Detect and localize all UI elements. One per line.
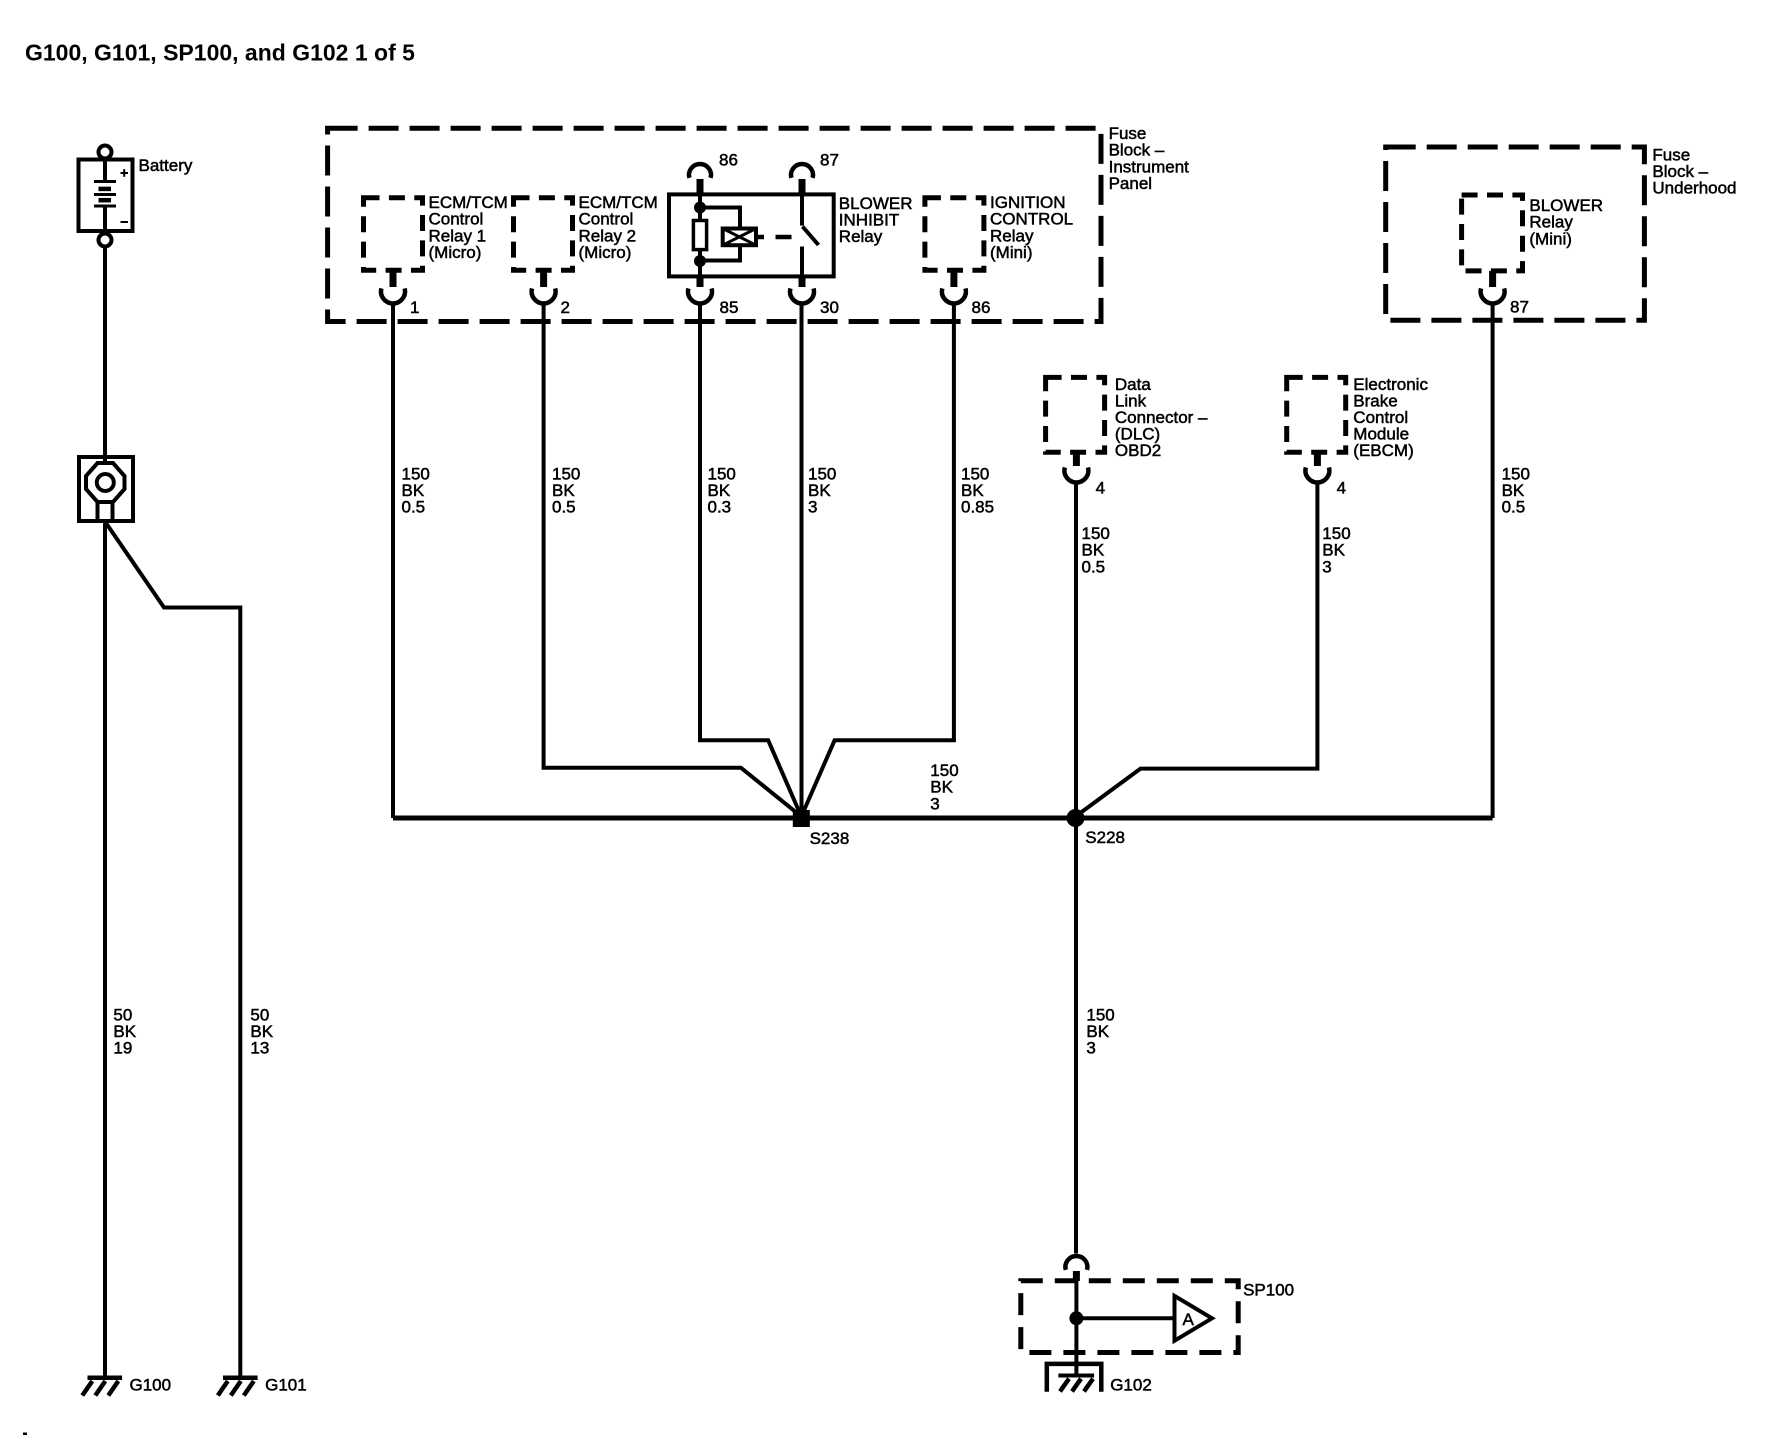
- svg-text:0.5: 0.5: [552, 498, 576, 517]
- svg-text:G101: G101: [265, 1376, 307, 1395]
- battery: [79, 146, 133, 247]
- relay coil resistor: [693, 195, 706, 277]
- wire EBCM to S228: [1076, 483, 1318, 817]
- svg-text:(Mini): (Mini): [990, 243, 1033, 262]
- svg-text:3: 3: [1086, 1039, 1095, 1058]
- fuse block - underhood (dashed): [1386, 147, 1645, 320]
- splice S228: [1069, 811, 1083, 825]
- svg-text:3: 3: [1322, 557, 1331, 576]
- wire ring terminal to G100: [103, 521, 107, 1378]
- pin 30 connector: [790, 276, 814, 303]
- svg-text:0.5: 0.5: [1082, 557, 1106, 576]
- pin 86 connector: [942, 270, 966, 303]
- svg-text:3: 3: [930, 794, 939, 813]
- blower relay (Mini): [1462, 195, 1523, 271]
- svg-text:Underhood: Underhood: [1652, 179, 1736, 198]
- pin 2 connector: [532, 270, 556, 303]
- svg-text:(Micro): (Micro): [579, 243, 632, 262]
- svg-text:(Micro): (Micro): [429, 243, 482, 262]
- ignition control relay (Mini): [925, 198, 984, 270]
- SP100 connector arc: [1065, 1256, 1087, 1281]
- svg-text:0.5: 0.5: [1502, 498, 1526, 517]
- ground G102: [1058, 1376, 1094, 1392]
- wire pin 85 to S238: [700, 304, 801, 817]
- svg-text:A: A: [1183, 1310, 1195, 1329]
- blower inhibit relay box: [669, 194, 834, 276]
- pin 1 connector: [381, 270, 405, 303]
- svg-text:87: 87: [1510, 298, 1529, 317]
- svg-text:(Mini): (Mini): [1529, 229, 1572, 248]
- svg-text:86: 86: [972, 298, 991, 317]
- wire pin 86 to S238: [801, 304, 954, 817]
- wire pin 1 to S238: [391, 304, 395, 819]
- svg-text:OBD2: OBD2: [1115, 441, 1161, 460]
- svg-text:4: 4: [1096, 479, 1105, 498]
- ring terminal (battery ground cable lug): [79, 457, 133, 521]
- svg-text:Relay: Relay: [839, 227, 883, 246]
- svg-text:87: 87: [820, 151, 839, 170]
- svg-text:0.3: 0.3: [708, 498, 732, 517]
- svg-text:4: 4: [1337, 479, 1346, 498]
- wire branch to G101: [106, 523, 240, 1378]
- svg-text:G100: G100: [130, 1376, 172, 1395]
- coil to switch dashed link: [756, 235, 792, 240]
- fuse block - instrument panel (dashed): [328, 128, 1101, 321]
- SP100 internal wire and junction: [1071, 1281, 1174, 1376]
- svg-text:G100, G101, SP100, and G102 1: G100, G101, SP100, and G102 1 of 5: [25, 39, 415, 65]
- electronic brake control module EBCM: [1287, 377, 1346, 452]
- svg-text:86: 86: [719, 151, 738, 170]
- ground G100: [82, 1378, 122, 1396]
- svg-text:30: 30: [820, 298, 839, 317]
- terminal 87 arc: [791, 164, 813, 195]
- ECM/TCM Control Relay 1 (Micro): [364, 198, 423, 270]
- EBCM pin 4 connector: [1305, 452, 1329, 482]
- pin 87 connector: [1481, 271, 1505, 304]
- DLC pin 4 connector: [1064, 452, 1088, 482]
- svg-text:85: 85: [720, 298, 739, 317]
- svg-text:0.5: 0.5: [402, 498, 426, 517]
- ground bus wire S238 to S228 to blower relay: [393, 816, 1493, 821]
- svg-text:(EBCM): (EBCM): [1353, 441, 1413, 460]
- ground G101: [218, 1378, 258, 1396]
- wire pin 30 to S238: [800, 304, 804, 817]
- svg-text:G102: G102: [1110, 1376, 1152, 1395]
- svg-text:19: 19: [113, 1039, 132, 1058]
- stray mark: [23, 1433, 27, 1436]
- splice pack SP100 (dashed): [1021, 1281, 1238, 1353]
- ECM/TCM Control Relay 2 (Micro): [514, 198, 573, 270]
- wire pin 2 to S238: [544, 304, 802, 817]
- wire DLC to S228 and down to SP100: [1074, 483, 1078, 1254]
- svg-text:SP100: SP100: [1243, 1280, 1294, 1299]
- svg-text:Battery: Battery: [139, 156, 193, 175]
- svg-text:S228: S228: [1085, 828, 1125, 847]
- svg-text:Panel: Panel: [1109, 174, 1152, 193]
- relay switch: [802, 195, 819, 277]
- svg-text:3: 3: [808, 498, 817, 517]
- SP100 A-bus triangle: [1175, 1296, 1213, 1341]
- splice S238: [795, 812, 808, 825]
- wire pin 87 to bus: [1491, 304, 1495, 819]
- svg-text:S238: S238: [810, 829, 850, 848]
- ground G102 bracket: [1047, 1364, 1102, 1392]
- svg-text:0.85: 0.85: [961, 498, 994, 517]
- terminal 86 arc: [689, 164, 711, 195]
- wire battery negative to ring terminal: [103, 247, 107, 458]
- relay coil (solenoid X-box): [700, 208, 756, 261]
- svg-text:13: 13: [250, 1039, 269, 1058]
- svg-text:2: 2: [561, 298, 570, 317]
- pin 85 connector: [688, 276, 712, 303]
- data link connector DLC: [1046, 377, 1105, 452]
- svg-text:1: 1: [410, 298, 419, 317]
